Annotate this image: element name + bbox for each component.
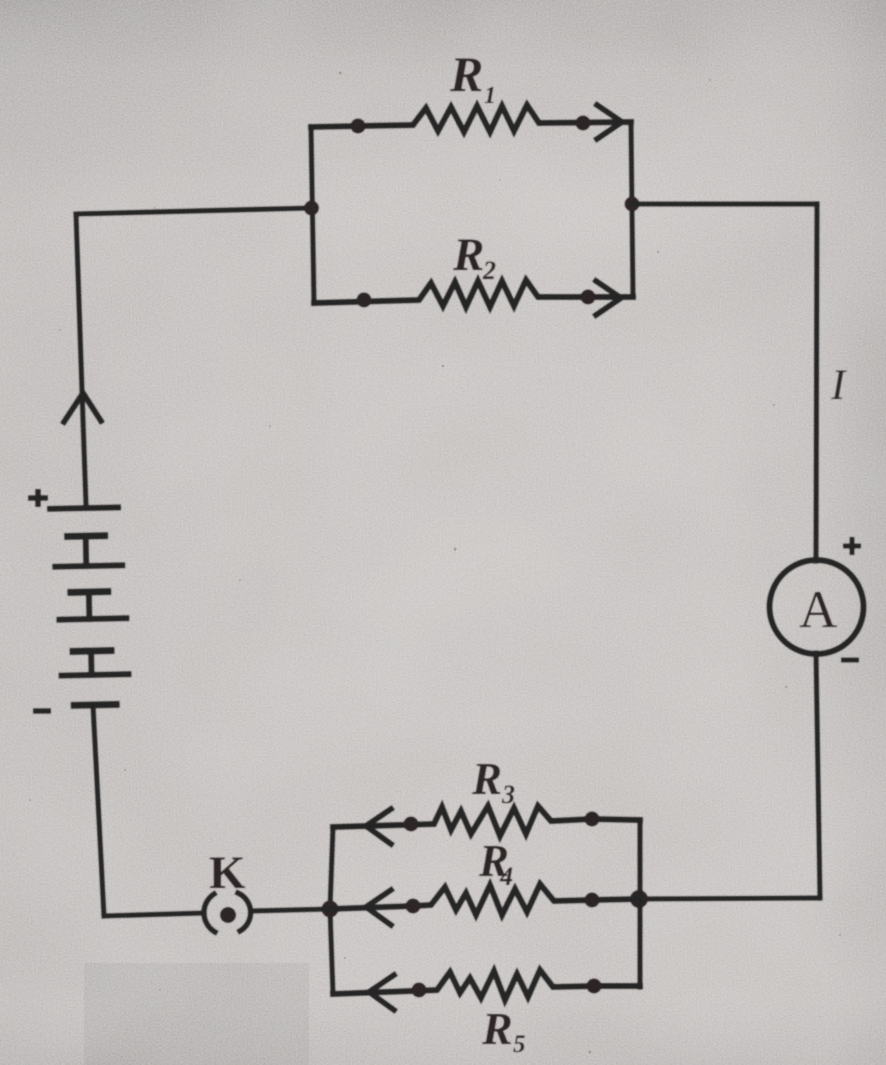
ammeter + sign bbox=[843, 537, 861, 555]
node: right terminal of R2 bbox=[581, 290, 596, 305]
battery B (4 cells) bbox=[50, 507, 129, 706]
node: right terminal of R5 bbox=[587, 979, 602, 994]
node: left terminal of R5 bbox=[412, 983, 427, 998]
wire: right vertical upper (to ammeter) bbox=[816, 204, 817, 561]
current arrow (rightward) on R2 branch bbox=[596, 281, 621, 315]
battery plate short (- of cell 3) with stem bbox=[73, 647, 111, 655]
battery plate long (+ of cell 3) bbox=[59, 618, 126, 619]
resistor R1 (with branch wire) bbox=[311, 105, 631, 132]
wire: top-right horizontal bbox=[632, 201, 817, 206]
battery + sign bbox=[28, 489, 48, 507]
wire: key to bottom parallel block bbox=[251, 909, 330, 911]
wire: right vertical of top parallel block bbox=[631, 122, 633, 297]
wire: left vertical of top parallel block bbox=[311, 127, 314, 303]
battery plate short (- of cell 2) with stem bbox=[71, 588, 108, 596]
current arrow (leftward) on R4 branch bbox=[366, 890, 391, 925]
battery - sign bbox=[33, 708, 51, 714]
node: junction of key wire with bottom parallel block bbox=[322, 901, 339, 918]
darker rectangular patch bottom-left bbox=[84, 963, 309, 1065]
current arrow (leftward) on R5 branch bbox=[369, 975, 394, 1010]
wire: right vertical lower (ammeter to bottom) bbox=[816, 653, 820, 898]
resistor R3 (with branch wire) bbox=[333, 806, 640, 836]
ammeter A (circle) bbox=[770, 560, 864, 654]
node: left terminal of R4 bbox=[406, 899, 421, 914]
battery plate long (+ of cell 1) bbox=[50, 507, 118, 508]
ammeter - sign bbox=[841, 658, 859, 663]
node: junction of bottom parallel block with right wire bbox=[630, 890, 648, 908]
node: left terminal of R2 bbox=[357, 293, 372, 308]
current arrow (upward) on left wire bbox=[64, 393, 101, 422]
resistor R2 (with branch wire) bbox=[314, 280, 633, 307]
key K (plug key symbol) bbox=[204, 893, 251, 932]
wire: top-left horizontal bbox=[76, 208, 312, 214]
current arrow (leftward) on R3 branch bbox=[366, 809, 391, 844]
key right bracket arc bbox=[238, 893, 251, 931]
node: left terminal of R3 bbox=[404, 817, 419, 832]
wire: right vertical of bottom parallel block bbox=[637, 820, 642, 987]
node: right terminal of R4 bbox=[585, 893, 600, 908]
wire: left vertical of bottom parallel block bbox=[330, 827, 333, 994]
wire: left vertical from top-left corner to battery + bbox=[76, 214, 86, 505]
battery plate long (+ of cell 2) bbox=[55, 565, 122, 566]
node: junction of left wire with parallel block bbox=[304, 201, 319, 216]
node: junction of top parallel block with right wire bbox=[625, 197, 640, 212]
wire: bottom-right horizontal bbox=[639, 898, 820, 899]
node: right terminal of R3 bbox=[585, 812, 600, 827]
battery plate short (- of cell 1) with stem bbox=[68, 532, 105, 540]
resistor R4 (with main bottom branch wire) bbox=[330, 884, 639, 915]
node: left terminal of R1 bbox=[351, 119, 366, 134]
key left bracket arc bbox=[204, 894, 215, 932]
current arrow (rightward) on R1 branch bbox=[597, 105, 622, 139]
wire: bottom-left vertical (battery - to bottom wire) bbox=[93, 705, 104, 916]
wire: bottom-left horizontal to key bbox=[104, 913, 204, 916]
key contact dot bbox=[220, 907, 236, 923]
resistor R5 (with branch wire) bbox=[333, 970, 640, 1000]
battery plate long (+ of cell 4) bbox=[62, 674, 129, 675]
node: right terminal of R1 bbox=[576, 116, 591, 131]
battery plate short (- of cell 4) bbox=[74, 701, 116, 709]
